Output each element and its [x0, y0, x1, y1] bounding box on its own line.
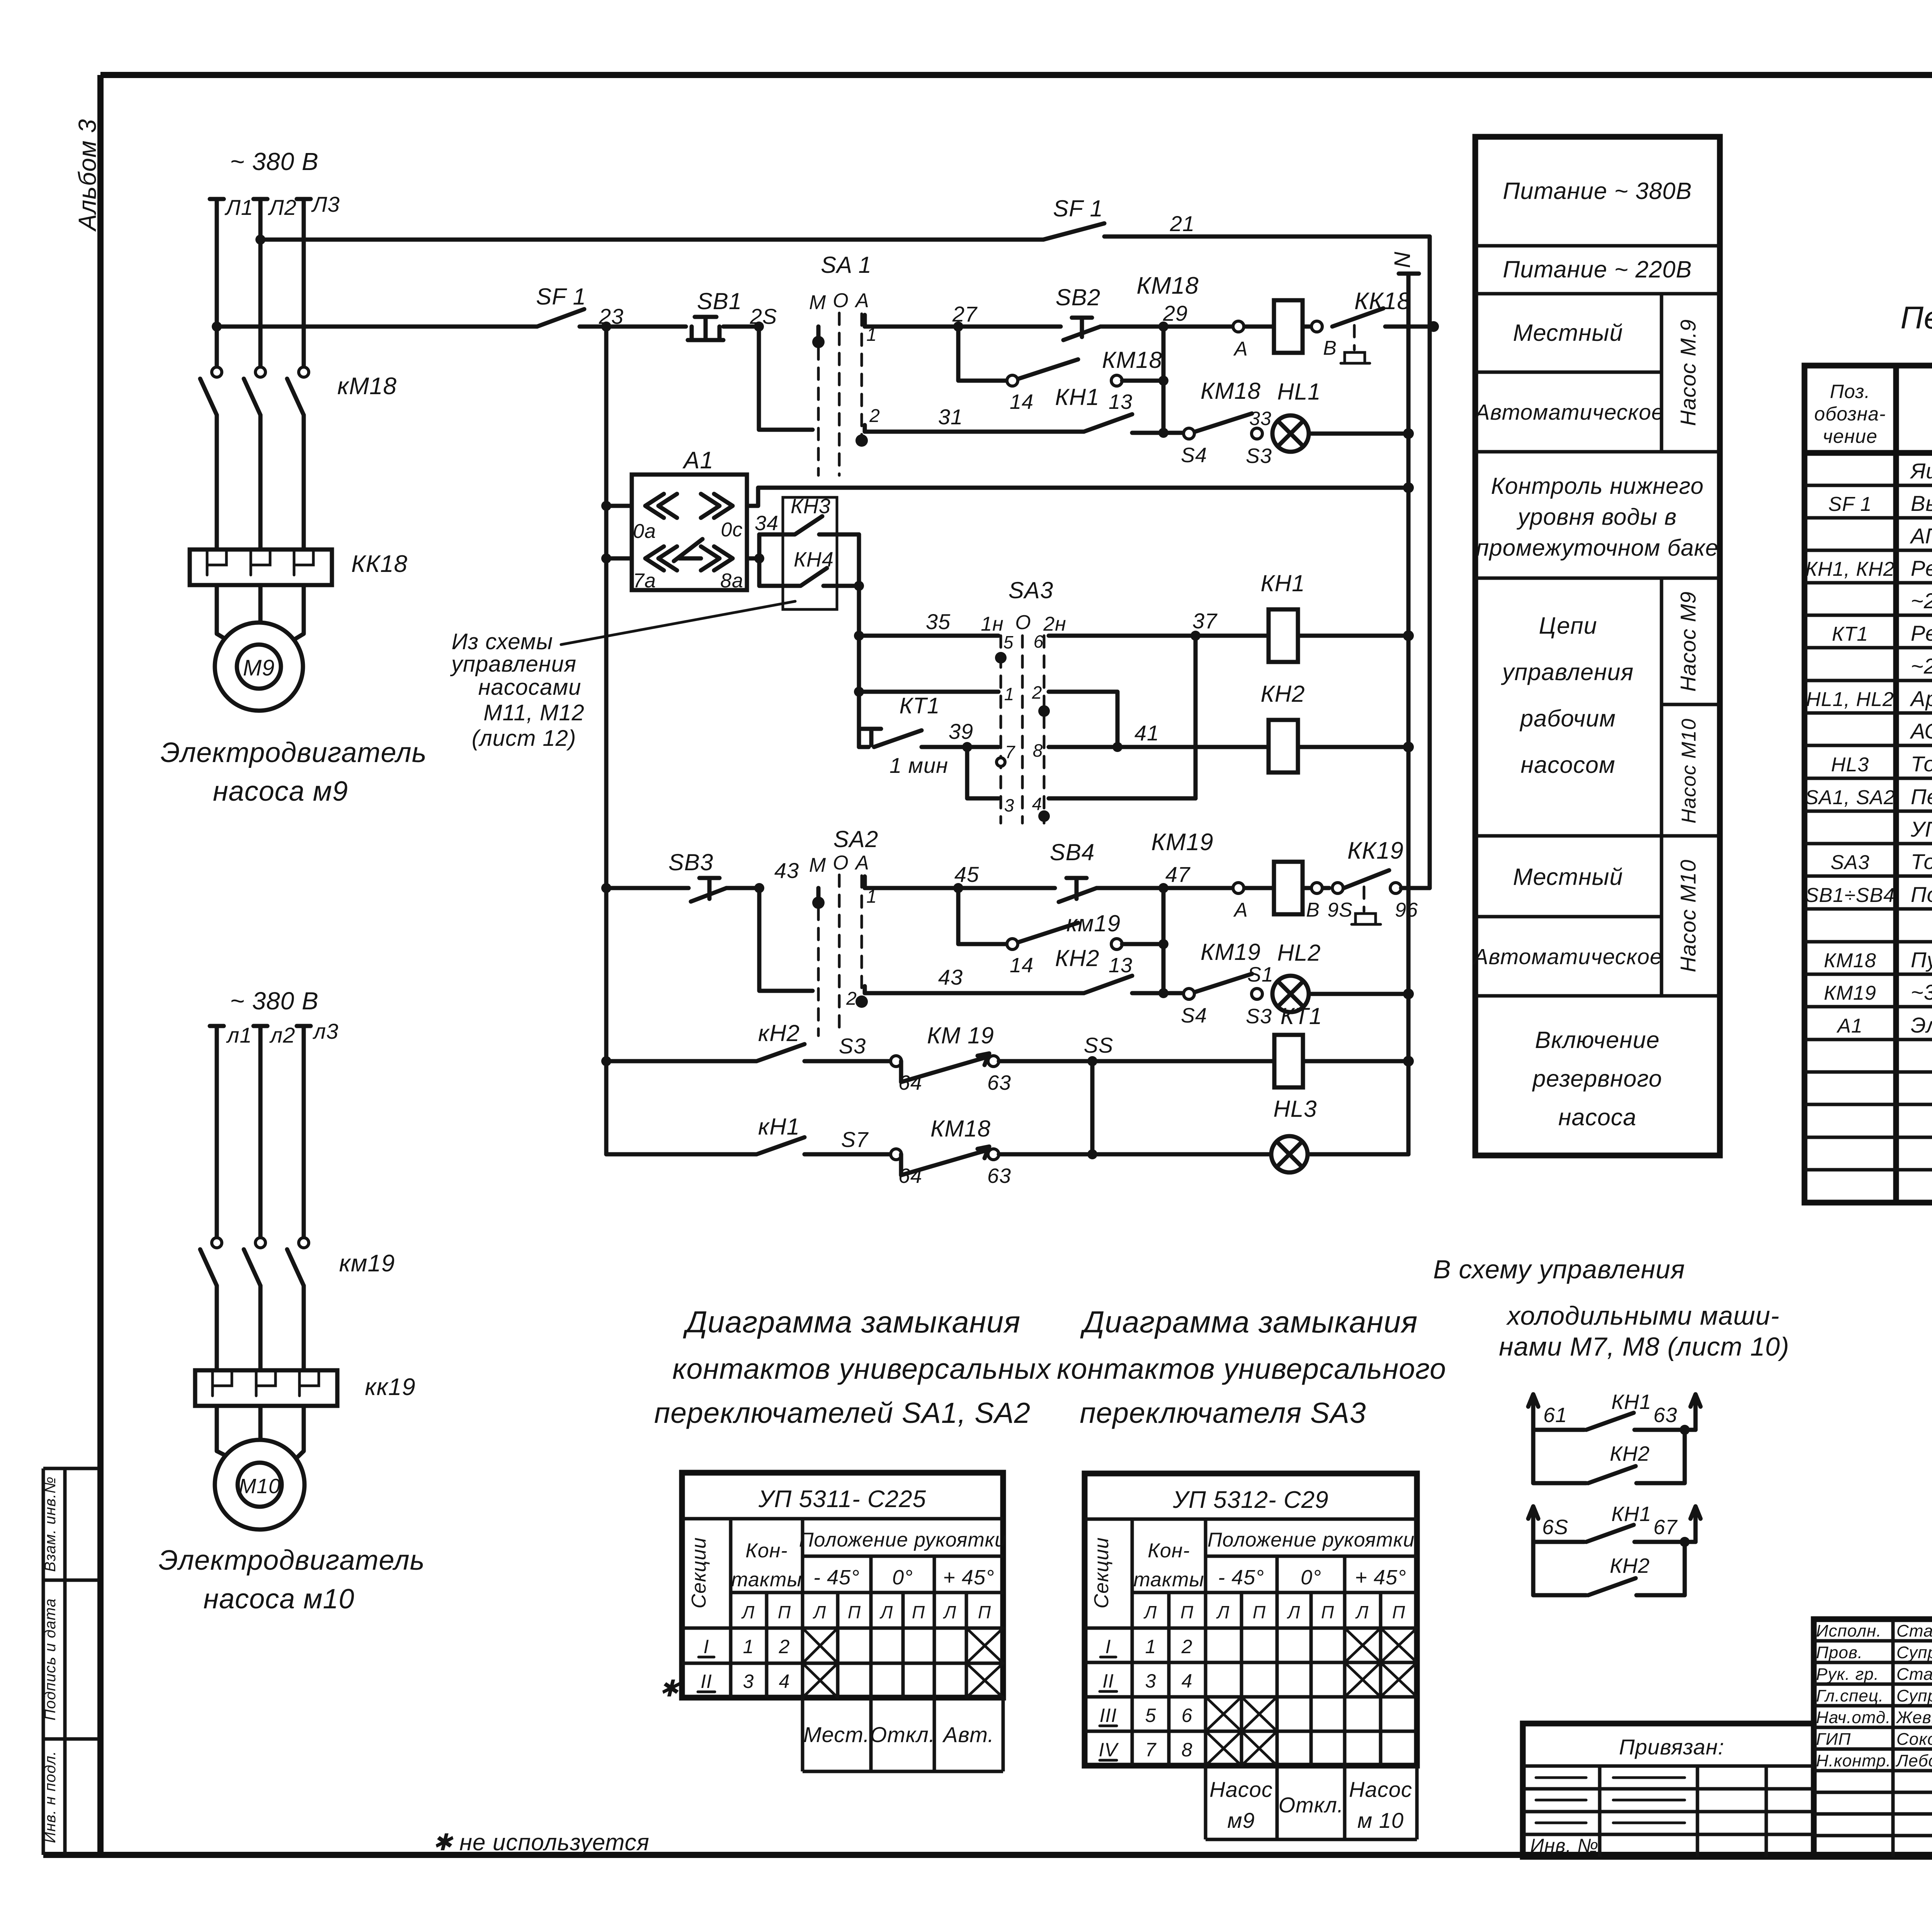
svg-text:4: 4 — [1032, 794, 1043, 814]
svg-text:~220 В: ~220 В — [1911, 589, 1932, 613]
svg-text:Диаграмма замыкания: Диаграмма замыкания — [1080, 1305, 1418, 1339]
node 55 — [1087, 1056, 1097, 1066]
svg-text:О: О — [833, 289, 849, 312]
chevrons output 8a — [685, 546, 733, 570]
svg-text:кН1: кН1 — [758, 1114, 800, 1140]
element row 11 — [1805, 784, 1932, 809]
svg-text:О: О — [833, 852, 849, 874]
svg-text:УП 5311- С225: УП 5311- С225 — [1910, 817, 1932, 841]
svg-text:Автоматическое: Автоматическое — [1474, 400, 1664, 425]
contact KN1 row P — [606, 1137, 893, 1154]
svg-text:П: П — [1253, 1602, 1266, 1622]
svg-text:В схему управления: В схему управления — [1433, 1255, 1685, 1284]
svg-text:А: А — [1233, 899, 1248, 921]
svg-text:I: I — [1105, 1636, 1111, 1657]
svg-text:5: 5 — [1145, 1705, 1156, 1726]
terminal B KM18 — [1311, 321, 1322, 332]
phase terminal ticks M10 — [210, 1024, 311, 1028]
svg-text:чение: чение — [1823, 425, 1878, 447]
svg-text:Электродвигатель: Электродвигатель — [159, 1545, 425, 1576]
svg-text:S3: S3 — [839, 1034, 866, 1058]
frame left border — [97, 75, 104, 1855]
svg-text:м9: м9 — [1227, 1808, 1255, 1832]
wire coil to KK19 — [1303, 886, 1329, 890]
svg-text:9S: 9S — [1327, 899, 1353, 921]
svg-text:Электродвигатель: Электродвигатель — [161, 737, 427, 768]
svg-text:Переключатель универсальный: Переключатель универсальный — [1911, 784, 1932, 809]
svg-text:Н.контр.: Н.контр. — [1816, 1751, 1891, 1770]
element row 6 — [1832, 621, 1932, 645]
svg-text:SВ3: SВ3 — [668, 849, 713, 875]
svg-text:УП 5311- С225: УП 5311- С225 — [758, 1486, 926, 1513]
row I wire right corner down — [1049, 692, 1117, 747]
svg-text:Л: Л — [1287, 1602, 1301, 1622]
svg-text:КМ18: КМ18 — [1824, 949, 1876, 972]
wire HL3 to N corner — [1308, 1152, 1408, 1157]
svg-text:+ 45°: + 45° — [943, 1566, 994, 1589]
svg-text:✱ не используется: ✱ не используется — [433, 1829, 650, 1855]
terminal B KM19 — [1311, 883, 1322, 893]
svg-text:ГИП: ГИП — [1816, 1730, 1851, 1749]
svg-text:Электронный сигнализатор уровн: Электронный сигнализатор уровня ЭРСУ-4 — [1911, 1013, 1932, 1037]
svg-text:SB1÷SB4: SB1÷SB4 — [1805, 884, 1895, 907]
svg-text:SВ1: SВ1 — [697, 288, 742, 314]
svg-text:21: 21 — [1170, 211, 1195, 236]
svg-text:Питание ~ 220В: Питание ~ 220В — [1503, 256, 1692, 282]
table1 row I — [704, 1636, 790, 1657]
svg-text:S7: S7 — [841, 1127, 869, 1152]
contactor KM18 main contacts — [200, 367, 309, 415]
node 37 — [1190, 631, 1201, 641]
wire row N from SA2 contact 2 — [865, 986, 1084, 993]
svg-text:такты: такты — [731, 1569, 802, 1591]
element row 13 — [1830, 849, 1932, 874]
svg-text:км19: км19 — [339, 1250, 395, 1277]
svg-text:61: 61 — [1543, 1404, 1567, 1427]
element row 7 — [1911, 654, 1932, 678]
svg-text:64: 64 — [898, 1071, 922, 1094]
svg-text:Перечень элементов принципиаль: Перечень элементов принципиальной схемы — [1900, 300, 1932, 335]
chevrons output 0c — [701, 494, 733, 518]
svg-text:0°: 0° — [892, 1566, 913, 1589]
svg-text:Пост кнопочный ПКЕ 112- 2У2: Пост кнопочный ПКЕ 112- 2У2 — [1911, 882, 1932, 907]
svg-text:Мест.: Мест. — [803, 1722, 870, 1747]
dashed columns SA3 — [1001, 636, 1044, 823]
title block outer — [1814, 1619, 1932, 1857]
svg-text:Л: Л — [943, 1602, 957, 1622]
phase wires to thermal KK19 — [217, 1286, 304, 1370]
svg-text:6: 6 — [1182, 1705, 1193, 1726]
wire rail to A1 input 0a — [601, 501, 611, 511]
switch SA2 — [809, 826, 878, 1036]
wire 21 feed from L2 — [260, 238, 1043, 242]
svg-text:КН2: КН2 — [1610, 1554, 1650, 1577]
svg-text:Местный: Местный — [1513, 864, 1623, 890]
svg-text:кк19: кк19 — [365, 1374, 416, 1400]
svg-text:Л2: Л2 — [268, 195, 297, 219]
svg-text:контактов универсальных: контактов универсальных — [672, 1353, 1051, 1385]
wire to SB4 — [958, 886, 1055, 890]
callout line to KN4 — [561, 601, 795, 645]
svg-text:3: 3 — [1004, 795, 1015, 815]
mini diagram pair 2 — [1528, 1502, 1701, 1595]
svg-text:рабочим: рабочим — [1519, 705, 1616, 732]
node 43 — [754, 883, 764, 893]
svg-text:КМ19: КМ19 — [1151, 829, 1213, 856]
svg-text:3: 3 — [743, 1671, 754, 1692]
table1 lines — [682, 1519, 1003, 1771]
wire row L SA2 to node 45 — [865, 886, 958, 890]
wire 96 to rail 21 corner — [1401, 886, 1430, 890]
svg-text:П: П — [778, 1602, 791, 1622]
svg-text:1 мин: 1 мин — [889, 753, 948, 778]
svg-text:насоса м10: насоса м10 — [203, 1584, 354, 1615]
box A1 — [632, 475, 747, 590]
vertical node 47 down — [1162, 888, 1166, 993]
svg-text:То же, УП 5312- С29: То же, УП 5312- С29 — [1911, 849, 1932, 874]
wire KN2 coil to N — [1298, 745, 1408, 749]
svg-text:7: 7 — [1005, 742, 1015, 762]
table1 L P row — [741, 1602, 991, 1622]
svg-text:КК18: КК18 — [1354, 288, 1411, 315]
svg-text:6: 6 — [1034, 631, 1044, 652]
terminal A KM18 — [1233, 321, 1244, 332]
coil KM19 — [1274, 862, 1303, 914]
contact KM19 S4-S3 row N — [1184, 974, 1262, 999]
svg-text:П: П — [848, 1602, 861, 1622]
element row 17 — [1824, 980, 1932, 1004]
svg-text:SF 1: SF 1 — [1053, 196, 1103, 221]
svg-text:4: 4 — [779, 1671, 790, 1692]
wire to coil KM19 — [1163, 886, 1274, 890]
svg-text:1: 1 — [1004, 684, 1015, 704]
svg-text:КН1: КН1 — [1611, 1502, 1651, 1526]
svg-text:Л: Л — [813, 1602, 827, 1622]
svg-text:КМ18: КМ18 — [1136, 272, 1199, 299]
svg-text:Рук. гр.: Рук. гр. — [1816, 1665, 1879, 1684]
element row 5 — [1911, 589, 1932, 613]
svg-text:- 45°: - 45° — [1218, 1566, 1264, 1589]
svg-text:0с: 0с — [721, 519, 743, 541]
element row 12 — [1910, 817, 1932, 841]
terminal 95 — [1332, 883, 1343, 893]
junction rail row L — [601, 883, 611, 893]
svg-text:Альбом 3: Альбом 3 — [73, 119, 101, 232]
left margin strip boxes — [43, 1468, 98, 1855]
svg-text:Реле промежуточное РПУ-2-М1-: Реле промежуточное РПУ-2-М1-06620У3А, — [1911, 556, 1932, 580]
row K wire 3-4 — [967, 747, 998, 798]
svg-text:УП 5312- С29: УП 5312- С29 — [1172, 1487, 1328, 1513]
phase wires to thermal KK18 — [217, 415, 304, 550]
switch SA1 — [809, 252, 880, 475]
svg-text:М: М — [809, 291, 826, 314]
wire HL2 to N — [1309, 992, 1408, 996]
svg-text:34: 34 — [755, 512, 779, 535]
svg-text:М: М — [809, 854, 826, 876]
svg-text:41: 41 — [1134, 721, 1159, 745]
node 25 — [754, 322, 764, 332]
svg-text:Откл.: Откл. — [870, 1722, 935, 1747]
svg-text:SA2: SA2 — [833, 826, 878, 852]
node row B to vertical 29 — [1162, 327, 1166, 433]
svg-text:П: П — [912, 1602, 925, 1622]
svg-text:Соколовский: Соколовский — [1896, 1730, 1932, 1749]
svg-text:37: 37 — [1192, 609, 1218, 633]
svg-text:КН1: КН1 — [1055, 384, 1099, 410]
phase terminal ticks M9 — [210, 197, 311, 201]
svg-text:О: О — [1015, 611, 1031, 634]
rail N top tick — [1399, 272, 1419, 276]
svg-text:6S: 6S — [1542, 1516, 1568, 1539]
svg-text:КН1: КН1 — [1260, 570, 1305, 596]
svg-text:КМ 19: КМ 19 — [927, 1023, 994, 1048]
svg-text:управления: управления — [1501, 659, 1634, 685]
internal blade A1 — [674, 539, 702, 561]
svg-text:Л: Л — [1216, 1602, 1230, 1622]
wire KN1 to node29 vertical — [1132, 431, 1189, 435]
svg-text:Положение рукоятки: Положение рукоятки — [1207, 1529, 1415, 1551]
svg-text:Питание ~ 380В: Питание ~ 380В — [1503, 178, 1692, 204]
svg-text:Взам. инв.№: Взам. инв.№ — [42, 1476, 59, 1572]
svg-text:HL3: HL3 — [1273, 1096, 1317, 1122]
pushbutton SB4 — [1059, 878, 1163, 902]
svg-text:Местный: Местный — [1513, 320, 1623, 346]
svg-text:КМ18: КМ18 — [1201, 378, 1261, 404]
svg-text:КМ19: КМ19 — [1824, 982, 1876, 1004]
privyazan table — [1523, 1724, 1814, 1857]
lamp HL1 — [1272, 415, 1309, 452]
svg-text:А: А — [1233, 338, 1248, 360]
table2 rows I-IV — [1099, 1636, 1192, 1761]
svg-text:S3: S3 — [1246, 444, 1272, 468]
svg-text:Откл.: Откл. — [1279, 1793, 1344, 1817]
svg-text:31: 31 — [938, 405, 963, 429]
node 47 — [1158, 883, 1168, 893]
pushbutton SB3 — [691, 878, 759, 902]
junction row A to rail 21 — [1428, 321, 1439, 332]
svg-text:КН2: КН2 — [1610, 1442, 1650, 1465]
svg-text:63: 63 — [987, 1071, 1011, 1094]
svg-text:КТ1: КТ1 — [900, 693, 940, 718]
svg-text:переключателей SA1, SA2: переключателей SA1, SA2 — [654, 1397, 1031, 1429]
breaker SF1 pole row A — [537, 309, 686, 327]
svg-text:КН2: КН2 — [1055, 945, 1099, 971]
pushbutton SB2 — [1063, 318, 1163, 340]
table2 X marks — [1206, 1628, 1417, 1766]
svg-text:Старицына: Старицына — [1896, 1665, 1932, 1684]
svg-text:КМ18: КМ18 — [1102, 347, 1162, 373]
svg-text:КТ1: КТ1 — [1281, 1003, 1322, 1029]
svg-text:М11, М12: М11, М12 — [483, 700, 585, 725]
breaker SF1 pole on line 21 — [1043, 223, 1430, 240]
node 41 — [1112, 742, 1122, 752]
junction rail row O — [601, 1056, 611, 1066]
wire node43 down branch — [759, 888, 813, 991]
svg-text:Положение рукоятки: Положение рукоятки — [799, 1529, 1006, 1551]
svg-text:КК19: КК19 — [1347, 837, 1404, 864]
wire rail to A1 input 7a — [601, 553, 611, 563]
svg-text:~380 В, Iнэ = 19А, Приставка: ~380 В, Iнэ = 19А, Приставка ПКЛ- 1104 — [1911, 980, 1932, 1004]
chevrons input 0a — [645, 494, 677, 518]
element row 10 — [1831, 752, 1932, 776]
svg-text:13: 13 — [1109, 954, 1133, 977]
thermal contact KK19 — [1344, 870, 1389, 924]
wire KT1 coil to N — [1303, 1059, 1408, 1063]
svg-text:такты: такты — [1133, 1569, 1204, 1591]
wire KN1 coil to N — [1298, 634, 1408, 638]
svg-text:SВ2: SВ2 — [1056, 284, 1100, 310]
svg-text:29: 29 — [1163, 301, 1188, 325]
pushbutton SB1 — [688, 317, 759, 340]
frame bottom border — [43, 1852, 1932, 1858]
wire HL1 to N — [1309, 432, 1408, 436]
contact KN2 row O — [606, 1044, 893, 1061]
svg-text:1: 1 — [1145, 1636, 1156, 1657]
svg-text:л1: л1 — [226, 1023, 252, 1047]
svg-text:39: 39 — [949, 719, 973, 744]
svg-text:3: 3 — [1145, 1670, 1156, 1692]
svg-text:л3: л3 — [313, 1019, 339, 1043]
legend inner vertical dividers — [1662, 294, 1720, 996]
svg-text:III: III — [1100, 1705, 1117, 1726]
element row 4 — [1805, 556, 1932, 580]
svg-text:Насос: Насос — [1209, 1777, 1273, 1802]
svg-text:Л: Л — [879, 1602, 893, 1622]
svg-text:Старицына: Старицына — [1896, 1621, 1932, 1640]
junction row D on N rail — [1403, 482, 1414, 493]
svg-text:Привязан:: Привязан: — [1619, 1735, 1725, 1759]
svg-text:33: 33 — [1249, 408, 1272, 429]
svg-text:КН1, КН2: КН1, КН2 — [1805, 558, 1895, 580]
svg-text:л2: л2 — [269, 1023, 296, 1047]
svg-text:II: II — [701, 1671, 712, 1692]
svg-text:М10: М10 — [239, 1475, 281, 1498]
chevrons input 7a — [645, 546, 696, 570]
row K wire right to vertical 37 — [1049, 796, 1196, 801]
thermal relay KK18 heaters — [190, 550, 332, 585]
svg-text:SВ4: SВ4 — [1050, 839, 1095, 865]
svg-text:Автоматическое: Автоматическое — [1472, 944, 1662, 969]
svg-text:Реле времени РВП -72-3323 -: Реле времени РВП -72-3323 - 00У4, — [1911, 621, 1932, 645]
row H wire 35 — [854, 631, 864, 641]
svg-text:км19: км19 — [1066, 910, 1121, 936]
svg-text:S1: S1 — [1247, 963, 1274, 986]
svg-text:SA3: SA3 — [1009, 577, 1053, 603]
svg-text:КК18: КК18 — [351, 551, 408, 577]
svg-text:1н: 1н — [981, 613, 1004, 635]
left rail from node 23 — [604, 327, 609, 1154]
svg-text:✱: ✱ — [659, 1676, 680, 1701]
svg-text:7: 7 — [1145, 1739, 1157, 1761]
element row 3 — [1910, 524, 1932, 548]
vertical 55 down — [1090, 1061, 1095, 1154]
svg-text:Насос М.9: Насос М.9 — [1676, 319, 1700, 426]
svg-text:S4: S4 — [1181, 1004, 1207, 1027]
table2 lines — [1085, 1519, 1417, 1839]
wire row C from SA1 contact 2 — [865, 430, 1084, 434]
svg-text:4: 4 — [1182, 1670, 1193, 1692]
contact KM18 aux — [1007, 359, 1163, 386]
phase wires down to contactor M10 — [217, 1026, 304, 1238]
svg-text:63: 63 — [987, 1164, 1011, 1188]
svg-text:2н: 2н — [1043, 613, 1066, 635]
svg-text:Л: Л — [1355, 1602, 1369, 1622]
mini diagram pair 1 — [1528, 1390, 1701, 1483]
svg-text:Л1: Л1 — [224, 195, 253, 219]
svg-text:13: 13 — [1109, 390, 1133, 413]
svg-text:2: 2 — [1032, 682, 1043, 703]
svg-text:М9: М9 — [243, 655, 275, 681]
contact KN3 — [759, 516, 859, 534]
node 39 — [962, 742, 972, 752]
svg-text:2: 2 — [1181, 1636, 1193, 1657]
svg-text:нами М7, М8 (лист 10): нами М7, М8 (лист 10) — [1499, 1332, 1789, 1361]
svg-text:А1: А1 — [682, 447, 714, 474]
svg-text:Л: Л — [741, 1602, 755, 1622]
svg-text:2: 2 — [779, 1636, 790, 1657]
lamp HL3 — [1271, 1136, 1308, 1172]
svg-text:АС 44023У2, ~220 В: АС 44023У2, ~220 В — [1910, 719, 1932, 743]
svg-text:14: 14 — [1010, 390, 1034, 413]
svg-text:I: I — [704, 1636, 709, 1657]
svg-text:47: 47 — [1165, 862, 1190, 886]
svg-text:S4: S4 — [1181, 444, 1207, 467]
svg-text:КН2: КН2 — [1260, 681, 1305, 707]
svg-text:Ящик управления насосами Я2: Ящик управления насосами Я2 (см. черт. к… — [1910, 459, 1932, 483]
svg-text:Секции: Секции — [1090, 1537, 1113, 1609]
element row 14 — [1805, 882, 1932, 907]
svg-text:То же, АС 44021У2, ~220 В: То же, АС 44021У2, ~220 В — [1911, 752, 1932, 776]
element table outer — [1804, 366, 1932, 1203]
thermal relay KK19 heaters — [195, 1370, 337, 1406]
motor M10 — [215, 1440, 304, 1530]
lamp HL2 — [1272, 976, 1309, 1012]
svg-text:HL1: HL1 — [1277, 379, 1321, 405]
wire KT1 to 39 — [922, 745, 998, 749]
wires KK19 to motor M10 — [217, 1406, 304, 1465]
svg-text:Диаграмма замыкания: Диаграмма замыкания — [683, 1305, 1020, 1339]
frame top border — [100, 72, 1932, 78]
svg-text:35: 35 — [926, 609, 951, 634]
svg-text:43: 43 — [774, 858, 799, 883]
svg-text:+ 45°: + 45° — [1355, 1566, 1406, 1589]
terminal 96 — [1390, 883, 1401, 893]
svg-text:8: 8 — [1182, 1739, 1193, 1761]
svg-text:кМ18: кМ18 — [337, 373, 397, 400]
table1 X marks — [803, 1628, 1003, 1698]
node 45 — [953, 883, 963, 893]
svg-text:Нач.отд.: Нач.отд. — [1816, 1708, 1891, 1727]
svg-text:КТ1: КТ1 — [1832, 623, 1868, 645]
element table verticals — [1896, 366, 1932, 1203]
vertical 37 down — [1194, 636, 1198, 798]
svg-text:HL3: HL3 — [1831, 754, 1869, 776]
svg-text:А: А — [854, 852, 869, 874]
svg-text:8а: 8а — [720, 570, 743, 592]
svg-text:Подпись и дата: Подпись и дата — [42, 1598, 59, 1721]
element row 18 — [1836, 1013, 1932, 1037]
wire A1 8a output to node 34 — [747, 534, 759, 586]
wire to node 55 — [999, 1059, 1274, 1063]
svg-text:Выключатель автоматичес: Выключатель автоматический — [1911, 491, 1932, 516]
svg-text:II: II — [1102, 1670, 1114, 1692]
svg-text:Включение: Включение — [1535, 1027, 1660, 1053]
rail N vertical — [1406, 274, 1411, 1154]
node 29 — [1158, 322, 1168, 332]
node 23 — [601, 322, 611, 332]
svg-text:П: П — [978, 1602, 991, 1622]
svg-text:В: В — [1306, 899, 1320, 921]
